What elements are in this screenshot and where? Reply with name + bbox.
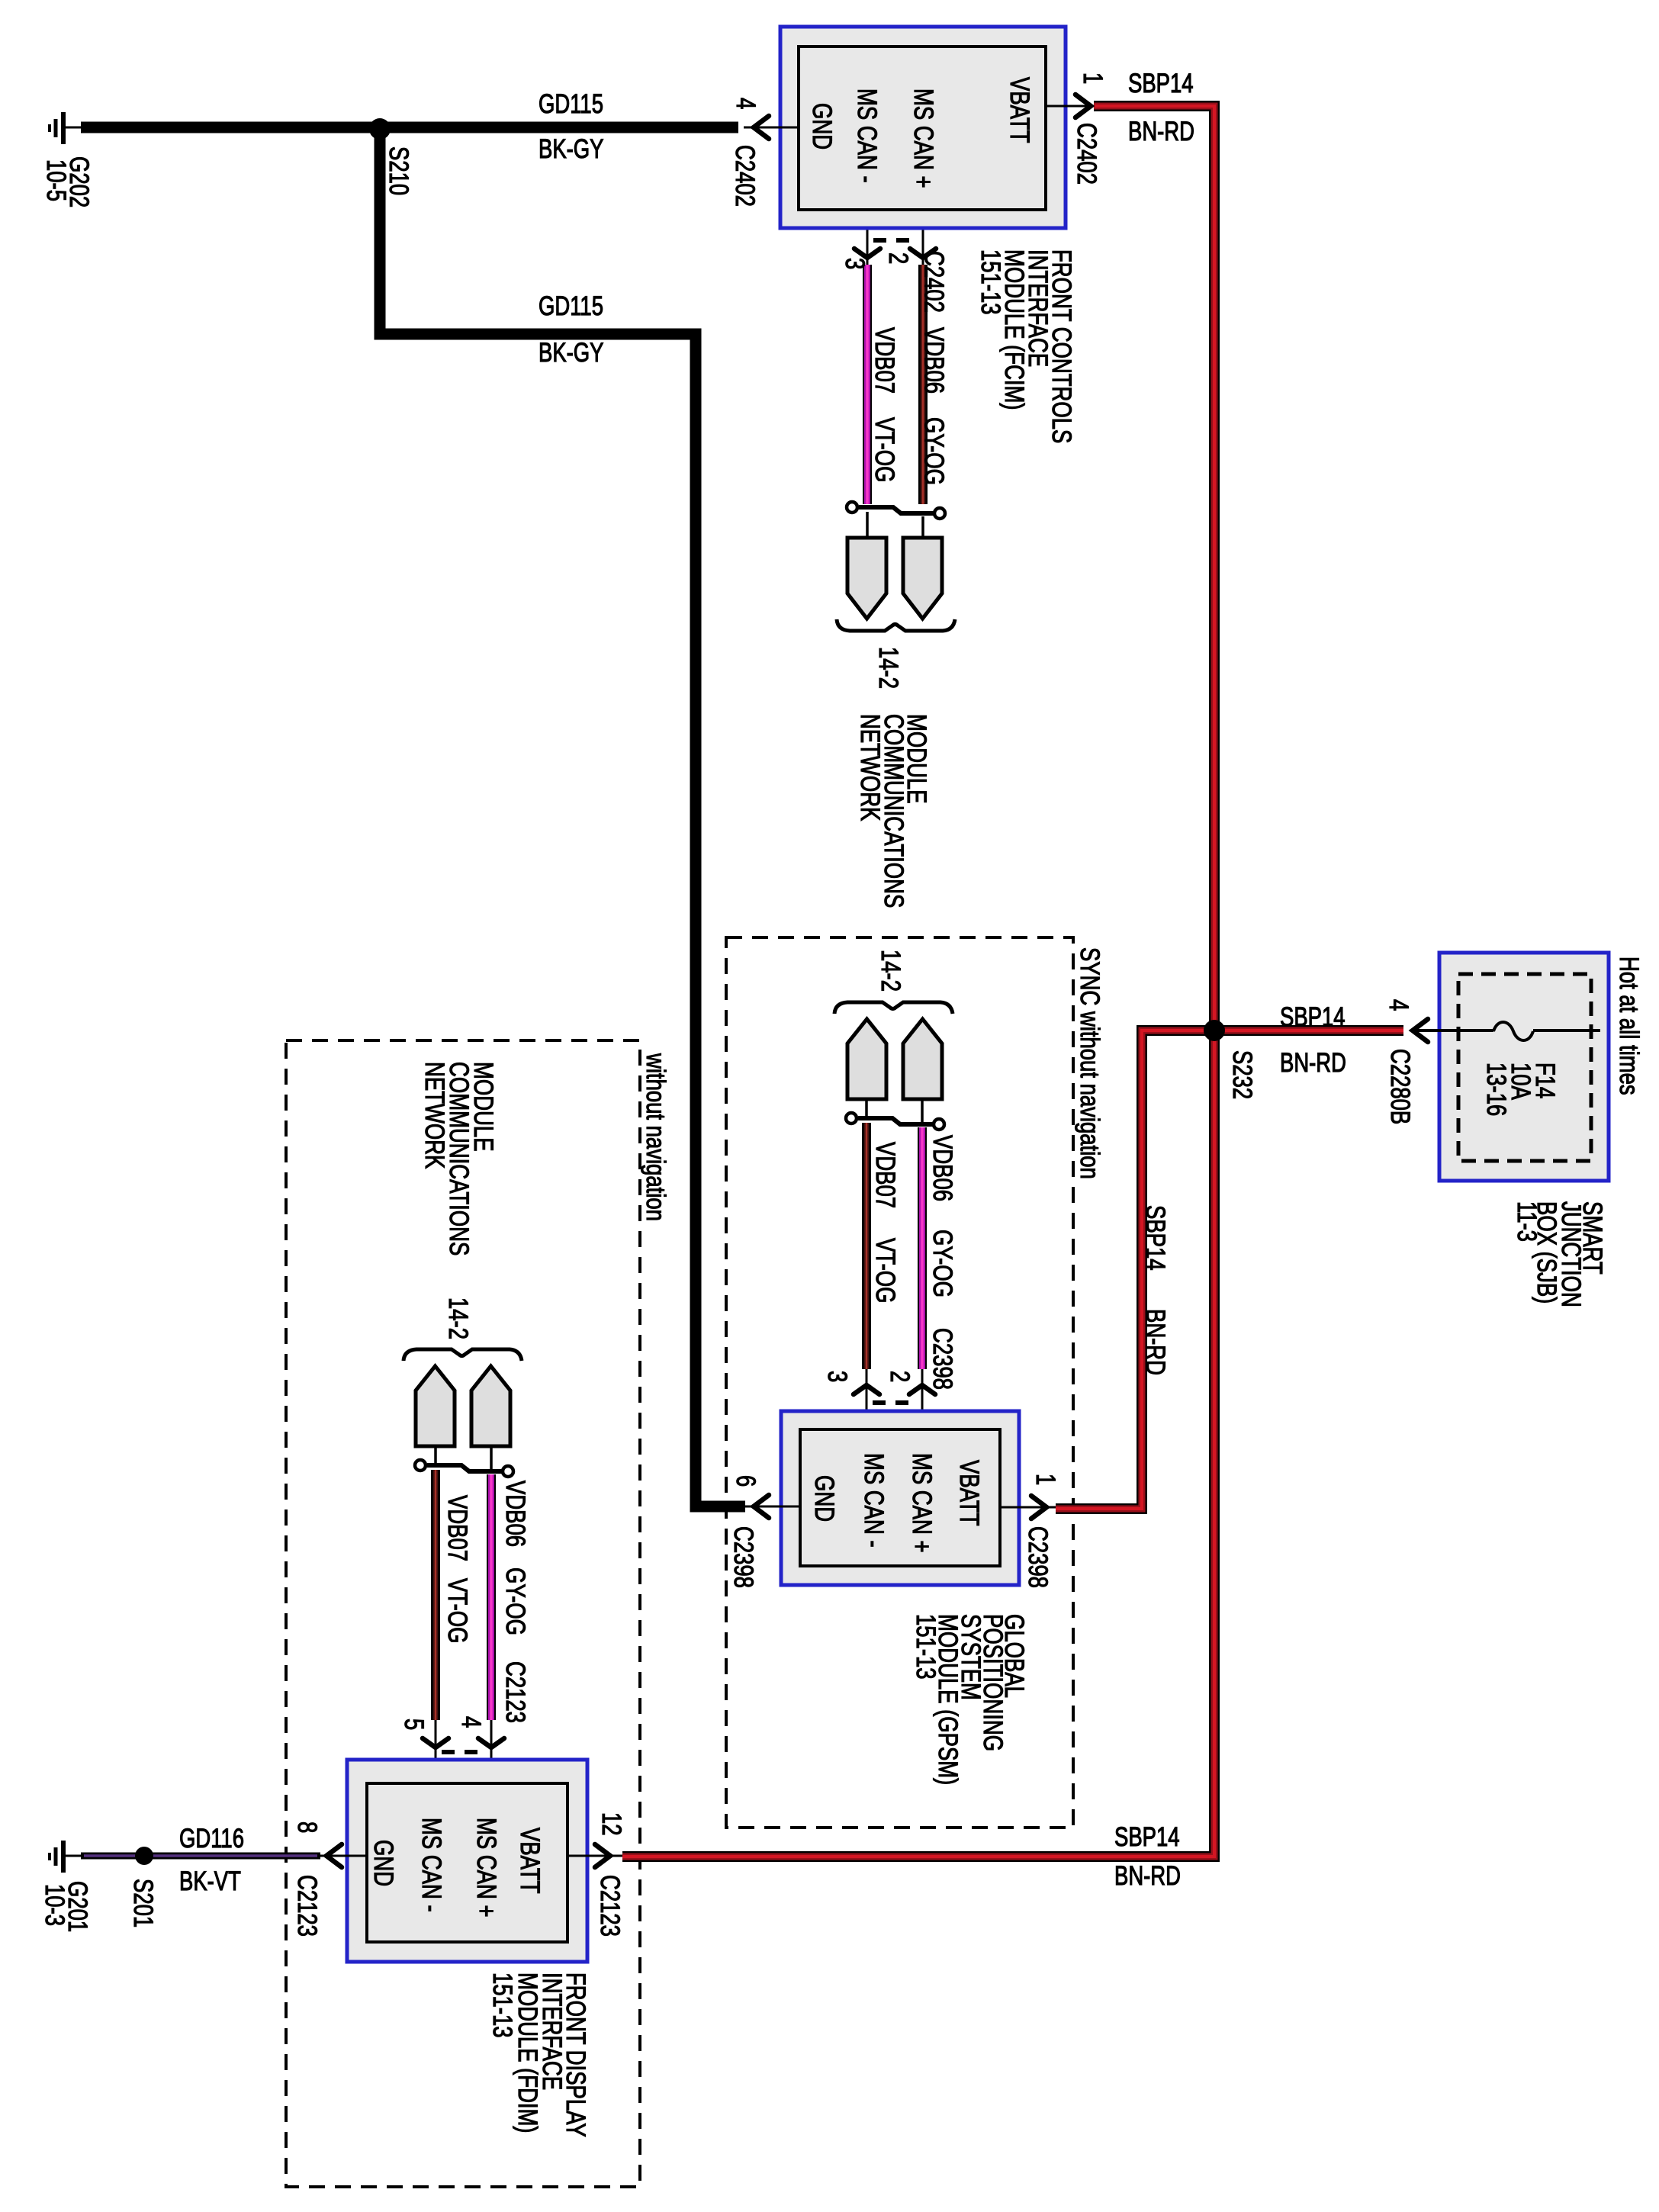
svg-text:VDB06: VDB06 [500,1481,530,1547]
svg-text:C2398: C2398 [728,1526,758,1588]
svg-text:8: 8 [292,1821,322,1833]
svg-text:C2123: C2123 [595,1875,625,1937]
svg-text:14-2: 14-2 [873,647,903,689]
pin arrow FCIM 1 (C2402) [1075,95,1091,117]
module FCIM box [780,27,1066,228]
svg-text:14-2: 14-2 [443,1297,473,1339]
svg-text:C2402: C2402 [919,251,949,313]
svg-text:BN-RD: BN-RD [1280,1048,1346,1078]
wire GD115 BK-GY: G202 ground to FCIM pin 4 [81,122,738,133]
wire VDB07 VT-OG (FCIM pin 3) [866,210,869,265]
module GPSM box [781,1411,1019,1585]
svg-text:2: 2 [883,252,913,264]
svg-text:GND: GND [809,1475,839,1522]
svg-text:C2280B: C2280B [1385,1049,1415,1124]
pin arrow GPSM 3 (C2398) [854,1385,879,1394]
lead FCIM pin 4 [744,127,799,129]
svg-text:10-3: 10-3 [40,1884,69,1926]
svg-text:GY-OG: GY-OG [500,1567,530,1635]
svg-text:BK-VT: BK-VT [179,1866,241,1896]
junction S201 [135,1847,153,1865]
svg-text:4: 4 [1384,999,1413,1011]
svg-text:MS CAN -: MS CAN - [852,88,882,183]
wire VDB06 GY-OG (GPSM pin 2) [918,1127,927,1369]
smart junction box SJB [1439,953,1609,1181]
svg-text:6: 6 [731,1475,760,1487]
svg-text:SYNC without navigation: SYNC without navigation [1075,947,1104,1179]
fuse F14 element [1493,1022,1533,1040]
svg-text:C2123: C2123 [500,1661,530,1723]
svg-text:GND: GND [807,103,837,150]
splice pair FDIM [415,1460,513,1477]
svg-text:MS CAN -: MS CAN - [859,1453,889,1548]
shield terminator (FDIM left) [416,1366,455,1446]
wire stubs from terminators FDIM [436,1446,491,1470]
svg-text:BN-RD: BN-RD [1140,1309,1170,1375]
svg-text:S210: S210 [384,146,413,195]
svg-text:VDB07: VDB07 [870,327,899,394]
wire SBP14 BN-RD: FCIM pin 1 down to FDIM pin 12, with S232 branches [622,106,1403,1857]
svg-text:BN-RD: BN-RD [1114,1861,1181,1891]
svg-text:151-13: 151-13 [487,1972,517,2038]
shield terminator (FDIM right) [471,1366,510,1446]
svg-text:VDB07: VDB07 [442,1495,472,1561]
svg-text:11-3: 11-3 [1512,1201,1542,1242]
svg-text:SBP14: SBP14 [1114,1822,1180,1852]
svg-text:GD115: GD115 [539,89,603,119]
shield terminator (FCIM right) [903,538,942,619]
svg-text:GD116: GD116 [179,1824,244,1854]
wire VDB06 GY-OG (FDIM pin 4) [487,1474,496,1720]
svg-text:151-13: 151-13 [911,1614,940,1680]
svg-text:C2123: C2123 [292,1875,322,1937]
cable brace 14-2 (GPSM) [834,1002,953,1014]
svg-text:3: 3 [822,1371,852,1382]
svg-text:VT-OG: VT-OG [870,1238,900,1303]
lead GPSM pin 6 [745,1506,800,1508]
svg-text:VDB07: VDB07 [870,1142,900,1208]
svg-text:VT-OG: VT-OG [442,1578,472,1643]
pin arrow FDIM 5 (C2123) [423,1738,449,1747]
connector C2123 dashes [442,1750,487,1754]
pin arrow FCIM 3 (C2402) [854,249,880,258]
wire stubs from terminators GPSM [866,1099,922,1123]
svg-text:GD115: GD115 [539,291,603,321]
svg-text:C2402: C2402 [1072,123,1101,185]
ground G201 [50,1841,84,1873]
lead GPSM pin 1 [1000,1506,1056,1509]
svg-text:MS CAN +: MS CAN + [471,1818,501,1917]
connector C2398 dashes [873,1400,918,1405]
svg-text:151-13: 151-13 [976,249,1005,315]
svg-text:MS CAN -: MS CAN - [416,1818,446,1912]
svg-text:S201: S201 [128,1879,158,1927]
wire VDB07 VT-OG (FDIM pin 5) [431,1470,440,1720]
svg-text:VDB06: VDB06 [928,1135,957,1201]
svg-text:5: 5 [399,1718,429,1730]
svg-text:C2402: C2402 [730,145,760,207]
svg-text:12: 12 [596,1812,626,1836]
svg-text:VBATT: VBATT [515,1828,545,1893]
splice pair FCIM [847,502,945,519]
splice pair GPSM [846,1113,944,1130]
svg-text:VBATT: VBATT [1005,77,1034,143]
svg-text:SBP14: SBP14 [1128,69,1194,98]
svg-text:SBP14: SBP14 [1140,1205,1170,1271]
svg-text:BN-RD: BN-RD [1128,117,1194,146]
svg-text:GY-OG: GY-OG [919,417,949,485]
svg-text:NETWORK: NETWORK [420,1062,449,1169]
svg-text:4: 4 [456,1716,486,1728]
pin arrow FDIM 8 (C2123) [326,1844,342,1867]
module FDIM box [347,1760,587,1962]
svg-text:4: 4 [731,98,760,109]
svg-text:BK-GY: BK-GY [539,338,603,368]
svg-text:GY-OG: GY-OG [928,1230,957,1297]
wire VDB07 VT-OG (GPSM pin 3) [862,1123,871,1369]
svg-text:C2398: C2398 [1023,1526,1053,1588]
lead FDIM pin 8 [319,1855,367,1857]
dashed box: SYNC without navigation [726,937,1073,1828]
lead FCIM pin 1 [1046,105,1094,108]
connector C2402 dashes [873,238,919,243]
shield terminator (GPSM left) [847,1019,886,1099]
dashed box: without navigation [286,1040,640,2187]
pin arrow SJB 4 (C2280B) [1413,1019,1428,1042]
pin arrow FDIM 4 (C2123) [478,1738,504,1747]
svg-text:GND: GND [368,1840,398,1886]
svg-text:without navigation: without navigation [641,1053,670,1221]
wire GD116 BK-VT: G201 ground to FDIM pin 8 [81,1853,320,1860]
cable brace 14-2 (FDIM) [403,1349,522,1361]
pin arrow FCIM 4 (C2402) [754,116,769,139]
wire stubs to shield terminators FCIM [867,512,923,538]
svg-text:MS CAN +: MS CAN + [907,1453,937,1552]
svg-text:VBATT: VBATT [954,1460,984,1526]
svg-text:13-16: 13-16 [1481,1063,1511,1116]
pin arrow GPSM 1 (C2398) [1031,1496,1047,1519]
svg-text:1: 1 [1078,72,1108,84]
pin arrow FDIM 12 (C2123) [595,1844,610,1867]
svg-text:2: 2 [885,1371,915,1382]
wire VDB06 GY-OG (FCIM pin 2) [922,210,924,265]
ground G202 [50,112,84,144]
svg-text:14-2: 14-2 [876,950,905,992]
shield terminator (FCIM left) [847,538,886,619]
wire GD115 BK-GY branch: S210 to GPSM pin 6 [380,129,745,1506]
svg-text:Hot at all times: Hot at all times [1614,956,1644,1095]
svg-text:C2398: C2398 [928,1328,957,1390]
pin arrow GPSM 2 (C2398) [909,1385,935,1394]
svg-text:VT-OG: VT-OG [870,417,899,482]
lead SJB pin 4 to fuse [1416,1029,1493,1032]
svg-text:NETWORK: NETWORK [855,714,885,821]
pin arrow FCIM 2 (C2402) [910,249,936,258]
svg-text:MS CAN +: MS CAN + [908,88,938,188]
svg-text:1: 1 [1030,1474,1060,1485]
lead FDIM pin 12 [567,1855,622,1857]
svg-text:BK-GY: BK-GY [539,134,603,164]
svg-text:S232: S232 [1227,1050,1257,1099]
shield terminator (GPSM right) [903,1019,942,1099]
svg-text:10-5: 10-5 [41,159,71,201]
junction S210 [369,118,391,140]
junction S232 [1204,1020,1225,1041]
svg-text:VDB06: VDB06 [919,327,949,394]
pin arrow GPSM 6 (C2398) [754,1495,769,1518]
svg-text:SBP14: SBP14 [1280,1002,1346,1032]
svg-text:3: 3 [840,258,870,269]
cable brace 14-2 (FCIM) [837,619,955,631]
